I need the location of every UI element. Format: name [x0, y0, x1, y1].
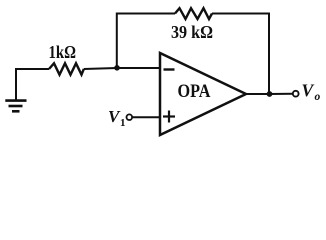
terminal Vo open circle: [293, 91, 299, 97]
svg-text:1: 1: [120, 117, 126, 129]
resistor R1 1kOhm: [49, 63, 84, 74]
ground: [5, 101, 26, 112]
node output junction dot: [267, 91, 273, 97]
svg-text:V: V: [302, 81, 315, 101]
wire: top-right segment and feedback right drop: [212, 14, 269, 93]
svg-text:o: o: [315, 91, 321, 103]
wire: op-amp output to output node: [246, 93, 270, 95]
resistor R2 39kOhm: [175, 8, 212, 19]
svg-text:1kΩ: 1kΩ: [49, 42, 77, 62]
wire: R1 to node A: [84, 68, 117, 69]
wire: node A to op-amp inverting input: [117, 67, 160, 69]
svg-text:39 kΩ: 39 kΩ: [171, 22, 213, 42]
wire: output node to Vo terminal: [270, 93, 293, 95]
wire: V1 terminal to non-inverting input: [132, 116, 160, 118]
op-amp U1 triangle: [160, 53, 246, 135]
terminal V1 open circle: [127, 114, 133, 120]
wire: ground riser and left segment to R1: [16, 69, 49, 100]
op-amp inverting input marker (minus): [164, 68, 175, 70]
wire: feedback left riser and top-left segment: [117, 14, 175, 68]
node A junction dot: [114, 65, 120, 71]
op-amp non-inverting input marker (plus): [163, 111, 175, 123]
svg-text:OPA: OPA: [178, 81, 211, 102]
